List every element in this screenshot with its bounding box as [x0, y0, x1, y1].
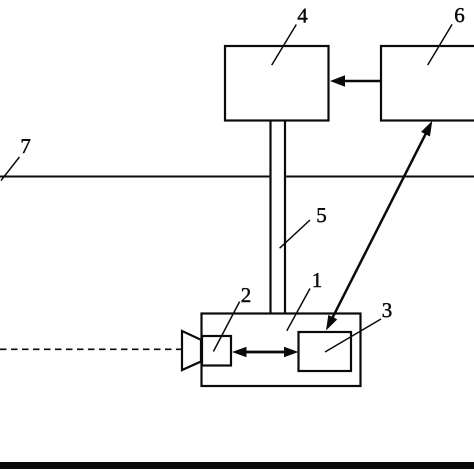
horn (transducer symbol at left of block 1) [182, 331, 201, 370]
double arrow between block 2 and block 3 [232, 347, 299, 357]
dashed line (signal into horn) [0, 348, 181, 350]
leader line 5 [280, 220, 310, 248]
svg-text:6: 6 [454, 3, 465, 27]
pole 5 (double vertical line from block 4 to block 1) [271, 122, 286, 314]
block 1 (outer enclosure) [202, 314, 361, 387]
leader line 1 [287, 289, 310, 331]
leader line 7 [1, 157, 19, 181]
block 2 (inner left box) [202, 336, 231, 366]
block 3 (inner right box) [299, 332, 352, 371]
leader line 6 [428, 24, 452, 65]
diagonal double arrow between block 6 and block 3 [326, 121, 432, 331]
wire 7 (horizontal line, occluded by pole 5) [0, 176, 474, 178]
svg-text:2: 2 [241, 283, 252, 307]
leader line 2 [213, 302, 239, 352]
svg-text:1: 1 [312, 268, 323, 292]
ground bar (thick bottom line) [0, 462, 474, 469]
arrow from block 6 to block 4 [330, 75, 381, 86]
svg-text:4: 4 [297, 3, 308, 27]
block 4 [225, 46, 329, 121]
svg-text:3: 3 [382, 298, 393, 322]
block 6 [381, 46, 474, 121]
leader line 3 [325, 319, 381, 352]
leader line 4 [272, 25, 297, 66]
svg-text:7: 7 [20, 134, 31, 158]
svg-text:5: 5 [316, 203, 327, 227]
